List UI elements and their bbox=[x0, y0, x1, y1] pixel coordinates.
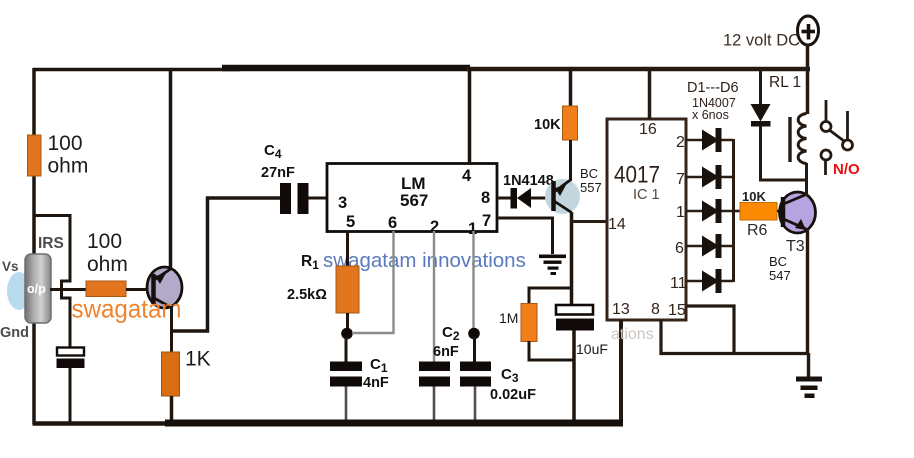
svg-text:7: 7 bbox=[676, 171, 685, 188]
svg-text:16: 16 bbox=[639, 121, 657, 138]
wire pin1 gray down bbox=[472, 231, 474, 330]
svg-text:IRS: IRS bbox=[38, 235, 64, 252]
wire emitter T3 down bbox=[806, 228, 809, 354]
wire pin13 down to ground rail bbox=[619, 320, 623, 425]
svg-text:R6: R6 bbox=[747, 222, 768, 239]
svg-text:1: 1 bbox=[676, 204, 685, 221]
svg-text:BC: BC bbox=[580, 166, 598, 181]
svg-text:T3: T3 bbox=[786, 238, 805, 255]
IRS sensor body bbox=[25, 254, 51, 323]
svg-text:8: 8 bbox=[651, 301, 660, 318]
wire pin15 link bbox=[687, 306, 734, 353]
svg-text:Vs: Vs bbox=[2, 259, 19, 274]
relay switch contacts bbox=[821, 100, 853, 175]
wire bottom ground rail thick bbox=[165, 420, 623, 427]
capacitor C3 plates bbox=[460, 362, 491, 387]
capacitor C2 plates bbox=[419, 362, 450, 387]
svg-text:0.02uF: 0.02uF bbox=[490, 387, 536, 403]
diode D2 row pin7 bbox=[686, 165, 733, 189]
svg-text:10K: 10K bbox=[534, 117, 561, 133]
diode D7 flyback bbox=[751, 69, 807, 180]
capacitor C4 plates bbox=[280, 183, 309, 214]
ground symbol G1 bbox=[539, 255, 566, 276]
wire top rail thick middle segment bbox=[222, 65, 470, 72]
svg-text:15: 15 bbox=[668, 302, 686, 319]
wire bus to R6 bbox=[733, 210, 741, 213]
wire pin7 to ground bbox=[497, 218, 553, 254]
svg-text:2: 2 bbox=[676, 134, 685, 151]
svg-text:100: 100 bbox=[48, 132, 83, 155]
wire bottom ground rail left bbox=[33, 421, 171, 426]
wire left supply rail bbox=[32, 68, 36, 424]
wire ground stem G2 bbox=[807, 353, 810, 377]
transistor Q1 BC547 input bbox=[147, 267, 182, 308]
wire C2 to ground rail bbox=[433, 387, 436, 425]
wire positive terminal down bbox=[806, 44, 810, 114]
wire diode to base Q2 bbox=[531, 197, 552, 200]
svg-text:27nF: 27nF bbox=[261, 165, 295, 181]
resistor R6 10K bbox=[740, 203, 777, 221]
node junction pin1 C3 bbox=[468, 328, 480, 340]
svg-text:4017: 4017 bbox=[614, 162, 660, 189]
wire base T1 bbox=[126, 288, 152, 291]
wire pin8 ground net bbox=[661, 320, 808, 354]
svg-text:ations: ations bbox=[611, 326, 654, 343]
wire pin8 to diode bbox=[497, 197, 512, 200]
wire top rail thin left segment bbox=[33, 68, 240, 72]
svg-text:Gnd: Gnd bbox=[0, 325, 29, 341]
wire coil to collector T3 bbox=[805, 163, 808, 196]
svg-text:1M: 1M bbox=[499, 310, 518, 326]
wire pin4 to top rail bbox=[468, 68, 472, 163]
diode D1 row pin2 bbox=[686, 128, 733, 152]
svg-text:1N4148: 1N4148 bbox=[503, 173, 554, 189]
wire pin2 gray down bbox=[433, 231, 435, 362]
svg-text:10K: 10K bbox=[742, 189, 766, 204]
svg-text:10uF: 10uF bbox=[576, 341, 608, 357]
wire collector Q2 down bbox=[570, 212, 574, 306]
svg-text:N/O: N/O bbox=[833, 161, 860, 178]
capacitor C5 10uF plates bbox=[556, 305, 594, 331]
svg-text:13: 13 bbox=[612, 301, 630, 318]
node junction R1 C1 bbox=[341, 328, 353, 340]
svg-text:5: 5 bbox=[346, 213, 355, 231]
wire pin16 to top rail bbox=[648, 68, 652, 119]
capacitor C1 plates bbox=[330, 362, 362, 387]
svg-text:3: 3 bbox=[338, 194, 347, 212]
wire R6 to base T3 bbox=[777, 210, 781, 213]
resistor R2 100 ohm vertical bbox=[28, 135, 42, 176]
svg-text:14: 14 bbox=[608, 216, 626, 233]
svg-text:x 6nos: x 6nos bbox=[692, 108, 729, 122]
svg-text:swagatam: swagatam bbox=[72, 294, 182, 324]
svg-text:BC: BC bbox=[769, 254, 787, 269]
svg-text:11: 11 bbox=[670, 275, 687, 292]
svg-text:D1---D6: D1---D6 bbox=[687, 80, 739, 96]
wire 1M top link bbox=[529, 288, 571, 304]
wire 1M bottom link bbox=[529, 341, 574, 360]
wire pin5 down bbox=[346, 231, 349, 267]
svg-text:4nF: 4nF bbox=[363, 375, 389, 391]
sensor glow bbox=[7, 272, 31, 310]
wire pin6 gray bbox=[352, 231, 394, 333]
svg-text:6: 6 bbox=[388, 214, 397, 232]
svg-text:6nF: 6nF bbox=[433, 344, 459, 360]
wire C1 to ground rail bbox=[345, 387, 348, 425]
transistor Q2 BC557 bbox=[545, 179, 580, 214]
wire C4 to pin3 bbox=[309, 197, 328, 200]
svg-text:12 volt DC: 12 volt DC bbox=[723, 32, 800, 50]
wire R1 bottom bbox=[346, 313, 349, 330]
diode D5 row pin11 bbox=[686, 269, 733, 293]
svg-text:ohm: ohm bbox=[48, 155, 89, 178]
IC2 4017 box bbox=[607, 119, 686, 320]
relay RL1 coil bbox=[798, 114, 806, 164]
wire top rail right segment bbox=[466, 67, 810, 72]
wire pin14 link bbox=[571, 220, 607, 223]
wire 10K to emitter Q2 bbox=[569, 140, 572, 181]
relay core bar bbox=[788, 117, 791, 162]
svg-text:6: 6 bbox=[675, 240, 684, 257]
wire sensor branch lower to ground bbox=[69, 368, 72, 424]
wire 1K to ground rail bbox=[170, 396, 174, 424]
transistor Q3 T3 BC547 bbox=[780, 192, 816, 233]
ground symbol G2 bbox=[796, 354, 822, 398]
svg-text:IC 1: IC 1 bbox=[633, 187, 660, 203]
supply positive terminal bbox=[798, 16, 819, 45]
wire 10uF to ground rail bbox=[572, 330, 576, 424]
wire junction to C3 bbox=[473, 337, 476, 362]
wire C3 to ground rail bbox=[474, 387, 477, 425]
resistor R7 1M bbox=[521, 304, 537, 342]
wire collector rail T1 bbox=[169, 68, 173, 269]
wire 10K top bbox=[569, 69, 573, 107]
diode D4 row pin6 bbox=[686, 234, 733, 258]
wire emitter T1 down bbox=[170, 306, 173, 353]
svg-text:o/p: o/p bbox=[27, 282, 46, 296]
op-amp U1 LM567 box bbox=[327, 164, 497, 232]
wire emitter to C4 link bbox=[172, 198, 282, 331]
svg-text:ohm: ohm bbox=[87, 253, 128, 276]
svg-text:RL 1: RL 1 bbox=[769, 74, 801, 91]
svg-text:1K: 1K bbox=[185, 348, 211, 371]
resistor R5 10K bbox=[563, 106, 578, 140]
svg-text:100: 100 bbox=[87, 230, 122, 253]
svg-text:4: 4 bbox=[462, 167, 472, 185]
diode D8 1N4148 bbox=[511, 188, 532, 209]
svg-text:2.5kΩ: 2.5kΩ bbox=[287, 287, 327, 303]
wire diode bus bbox=[732, 139, 735, 282]
svg-text:7: 7 bbox=[482, 212, 491, 230]
svg-text:8: 8 bbox=[481, 189, 490, 207]
diode D3 row pin1 bbox=[686, 199, 733, 223]
capacitor C6 sensor filter plates bbox=[57, 348, 85, 369]
resistor R1 body bbox=[336, 266, 359, 313]
svg-text:547: 547 bbox=[769, 268, 791, 283]
resistor R4 1K bbox=[162, 352, 180, 396]
wire o/p output bbox=[50, 288, 87, 291]
resistor R3 100 ohm horizontal bbox=[86, 281, 126, 297]
wire junction to C1 bbox=[345, 337, 348, 362]
svg-text:557: 557 bbox=[580, 180, 602, 195]
wire sensor Vs branch bbox=[34, 216, 70, 348]
svg-text:567: 567 bbox=[400, 191, 428, 210]
